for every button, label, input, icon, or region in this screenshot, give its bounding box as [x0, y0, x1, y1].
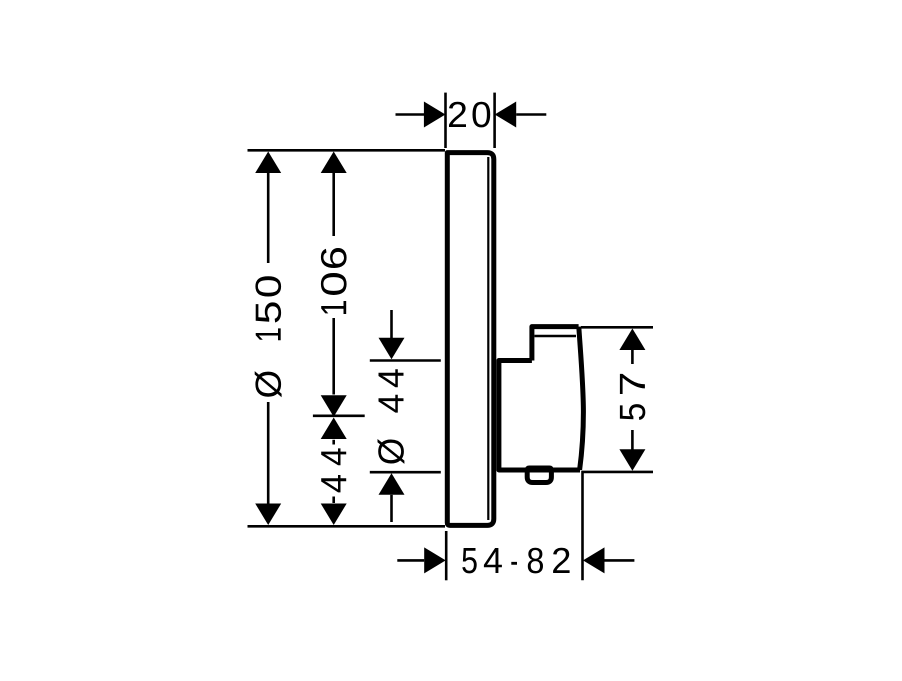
label 20: [449, 102, 490, 128]
label 57: [620, 374, 645, 420]
plate body (escutcheon side view): [447, 153, 494, 526]
dimension 20 right tail: [516, 113, 546, 116]
dimension Ø150 line upper segment: [267, 170, 270, 263]
centerline tick of handle axis: [313, 414, 365, 417]
dimension 44 line upper segment: [332, 440, 335, 445]
dimension Ø44 upper arrow tail: [390, 310, 393, 340]
dimension Ø150 line lower segment: [267, 402, 270, 505]
dimension 57 arrow up: [619, 329, 645, 351]
label 44: [321, 448, 346, 492]
dimension 57 upper tail: [631, 350, 634, 364]
dimension 54-82 right tail: [605, 559, 635, 562]
dimension 44 line lower segment: [332, 497, 335, 504]
dimension Ø44 arrow up: [379, 473, 405, 495]
dimension Ø150 arrow up: [255, 152, 281, 174]
dimension 54-82 extension line right: [581, 471, 584, 580]
dimension Ø44 lower arrow tail: [390, 495, 393, 522]
handle bottom tab: [527, 468, 551, 483]
dimension 20 arrow left-pointing: [495, 102, 517, 128]
label 106: [321, 248, 347, 314]
dimension Ø150 arrow down: [255, 504, 281, 526]
label Ø150: [255, 276, 282, 397]
dimension Ø44 arrow down: [379, 338, 405, 360]
handle stem inner line: [535, 335, 577, 338]
dimension 54-82 left tail: [397, 559, 424, 562]
label Ø44: [378, 369, 405, 464]
dimension 54-82 arrow left-pointing: [583, 547, 605, 573]
dimension 44 arrow up: [321, 418, 347, 440]
dimension 54-82 arrow right-pointing: [424, 547, 446, 573]
handle body outline: [499, 361, 580, 471]
dimension 106 line lower segment: [332, 318, 335, 395]
dimension Ø44 extension line top: [370, 359, 441, 362]
dimension 20 arrow right-pointing: [424, 102, 446, 128]
dimension 106 arrow up: [321, 152, 347, 174]
dimension 44 arrow down: [321, 504, 347, 526]
handle stem outline: [532, 327, 579, 361]
dimension 57 lower tail: [631, 430, 634, 450]
plate front face edge line: [487, 157, 489, 520]
dimension 57 extension line top: [581, 326, 653, 329]
dimension 54-82 extension line left: [445, 531, 448, 580]
label 54-82: [462, 548, 569, 574]
handle right profile arc: [579, 327, 584, 470]
dimension 57 extension line bottom: [582, 471, 653, 474]
dimension 57 arrow down: [619, 449, 645, 471]
dimension 20 left tail: [396, 113, 425, 116]
dimension 20 extension line left: [444, 93, 447, 148]
dimension 106 arrow down: [321, 395, 347, 417]
extension line bottom (plate bottom, to left dims): [248, 525, 446, 528]
dimension 20 extension line right: [493, 93, 496, 148]
extension line top (plate top, to left dims): [248, 149, 446, 152]
dimension Ø44 extension line bottom: [370, 471, 441, 474]
dimension 106 line upper segment: [332, 170, 335, 236]
